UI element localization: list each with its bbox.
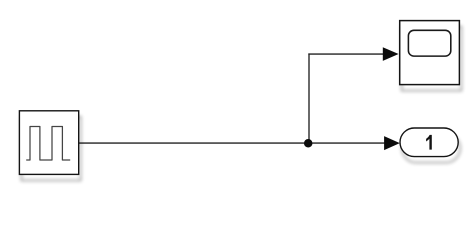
block: Pulse Generator — [19, 111, 78, 175]
wire: branch horizontal segment to Scope — [308, 53, 383, 55]
icon: Scope screen — [408, 30, 450, 56]
junction (branch point) — [304, 139, 313, 148]
block: Out1 outport (border shadow) — [400, 128, 458, 157]
arrowhead into Scope — [383, 47, 399, 61]
label: port number 1 — [426, 135, 432, 150]
block: Out1 outport — [400, 128, 458, 157]
arrowhead into Out1 — [384, 136, 400, 150]
block: Scope (border shadow) — [400, 21, 460, 85]
icon: pulse waveform inside Pulse Generator — [26, 127, 70, 161]
wire: Pulse Generator output to Out1 (horizontal segment) — [79, 142, 385, 144]
block: Pulse Generator (border shadow) — [19, 111, 78, 175]
block: Scope — [400, 21, 460, 85]
wire: branch vertical segment from junction up — [308, 53, 310, 143]
